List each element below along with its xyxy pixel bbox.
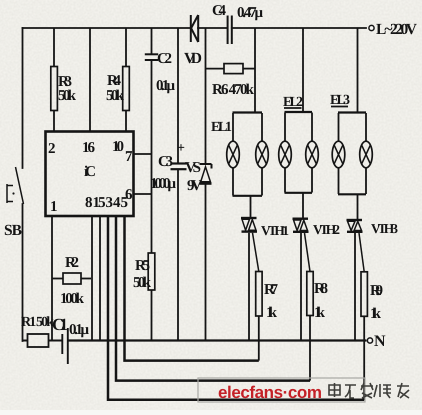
svg-text:VD: VD <box>184 50 202 67</box>
capacitor C1 <box>62 328 68 364</box>
wire bottom bus segment 1 <box>23 340 28 342</box>
svg-text:R2: R2 <box>65 255 79 271</box>
svg-text:R8: R8 <box>314 281 328 297</box>
svg-text:R4: R4 <box>107 73 122 89</box>
wire pin6 stub <box>134 193 152 195</box>
svg-text:R5: R5 <box>135 258 150 274</box>
svg-text:50k: 50k <box>106 88 125 104</box>
svg-text:+: + <box>177 141 185 156</box>
svg-text:R1 50k: R1 50k <box>21 315 54 330</box>
resistor R8 <box>307 272 313 316</box>
watermark CJK glyphs <box>329 383 409 398</box>
zener VS <box>200 28 212 341</box>
wire pin7 stub <box>134 153 152 155</box>
wire C2 to R5 node <box>151 60 153 253</box>
svg-text:L ~220V: L ~220V <box>376 21 418 38</box>
lamp group EL1 <box>227 113 269 196</box>
svg-text:VS: VS <box>185 160 201 176</box>
wire EL1 feed <box>254 28 256 113</box>
triac VTH1 <box>241 218 257 232</box>
wire top rail left segment <box>23 27 191 29</box>
wire left vertical upper <box>22 28 24 168</box>
svg-text:R7: R7 <box>264 282 279 298</box>
svg-text:elecfans·com: elecfans·com <box>218 383 322 402</box>
wire VTH2 cathode to bus <box>300 233 302 341</box>
svg-text:C2: C2 <box>157 51 172 67</box>
svg-text:10: 10 <box>112 139 124 155</box>
capacitor C3 electrolytic <box>171 28 187 341</box>
lamp group EL3 <box>332 113 372 195</box>
svg-text:N: N <box>374 333 386 350</box>
svg-text:0.47μ: 0.47μ <box>237 5 263 21</box>
label EL3 underline <box>331 106 348 108</box>
terminal L <box>369 25 374 30</box>
svg-text:7: 7 <box>125 149 133 165</box>
wire R9 down across bus <box>363 316 365 400</box>
capacitor C4 <box>228 16 232 45</box>
svg-text:0.1μ: 0.1μ <box>156 78 175 94</box>
svg-text:50k: 50k <box>58 88 77 104</box>
svg-text:9V: 9V <box>187 178 202 194</box>
wire pin3 to R9 <box>108 216 364 400</box>
wire VTH3 gate <box>359 233 364 272</box>
wire bottom bus segment 2 <box>49 340 63 342</box>
wire VTH3 cathode to bus <box>354 233 356 341</box>
svg-text:VTH2: VTH2 <box>313 222 340 237</box>
wire VTH2 gate <box>305 233 311 272</box>
label EL2 underline <box>284 107 302 109</box>
svg-text:SB: SB <box>4 222 22 239</box>
svg-text:8 15 3 4 5: 8 15 3 4 5 <box>85 195 128 211</box>
svg-text:iC: iC <box>84 164 96 180</box>
svg-text:C4: C4 <box>212 3 227 19</box>
wire bottom bus segment 3 <box>68 339 367 341</box>
wire R7 down across bus <box>258 316 260 361</box>
wire EL1 to VTH1 <box>250 196 252 217</box>
svg-text:0.1μ: 0.1μ <box>69 322 89 338</box>
wire EL2 to VTH2 <box>302 193 304 218</box>
resistor R6 <box>206 64 256 74</box>
wire R5 to bus <box>151 290 153 341</box>
resistor R1 <box>28 334 49 347</box>
svg-text:100k: 100k <box>60 291 85 307</box>
triac VTH3 <box>347 220 363 232</box>
resistor R5 <box>148 253 155 290</box>
resistor R3 <box>51 28 58 132</box>
terminal N <box>367 338 372 343</box>
svg-text:C1: C1 <box>52 315 68 334</box>
wire EL3 to VTH3 <box>357 195 359 220</box>
wire pin16 top <box>89 28 91 132</box>
svg-text:50k: 50k <box>133 275 152 291</box>
wire pin4 to R8 <box>116 216 310 381</box>
switch SB <box>7 167 24 204</box>
wire pin1 vertical <box>51 216 53 341</box>
watermark box <box>198 378 365 402</box>
svg-text:EL1: EL1 <box>211 120 232 135</box>
wire EL2 feed <box>302 28 304 112</box>
svg-text:R6 470k: R6 470k <box>212 82 255 98</box>
wire R8 down across bus <box>309 316 311 381</box>
triac VTH2 <box>293 219 309 232</box>
svg-text:1k: 1k <box>266 305 278 321</box>
resistor R2 <box>52 273 91 284</box>
svg-text:1000μ: 1000μ <box>150 176 176 192</box>
wire left vertical lower <box>22 204 24 341</box>
svg-text:R9: R9 <box>370 283 383 299</box>
svg-text:VTH3: VTH3 <box>371 221 398 236</box>
svg-text:C3: C3 <box>158 154 173 170</box>
capacitor C2 <box>145 28 158 60</box>
svg-text:1k: 1k <box>370 306 382 322</box>
resistor R4 <box>123 28 130 132</box>
svg-text:16: 16 <box>82 140 96 156</box>
lamp group EL2 <box>279 112 319 193</box>
wire pin5 to R7 <box>125 216 259 361</box>
svg-text:1: 1 <box>50 199 58 215</box>
wire top rail right segment <box>232 27 366 29</box>
svg-text:2: 2 <box>48 141 56 157</box>
diode VD <box>191 15 198 42</box>
svg-text:VTH1: VTH1 <box>261 223 289 238</box>
wire pin8 <box>91 216 93 341</box>
wire top rail mid segment <box>198 27 227 29</box>
wire pin15 <box>99 216 101 341</box>
resistor R7 <box>256 272 262 317</box>
resistor R9 <box>361 272 367 317</box>
wire VTH1 cathode to bus <box>248 233 250 341</box>
wire EL3 feed <box>357 28 359 113</box>
wire VTH1 gate <box>253 233 259 272</box>
op IC U1 box <box>46 132 134 217</box>
svg-text:1k: 1k <box>314 305 326 321</box>
svg-text:6: 6 <box>125 187 133 203</box>
